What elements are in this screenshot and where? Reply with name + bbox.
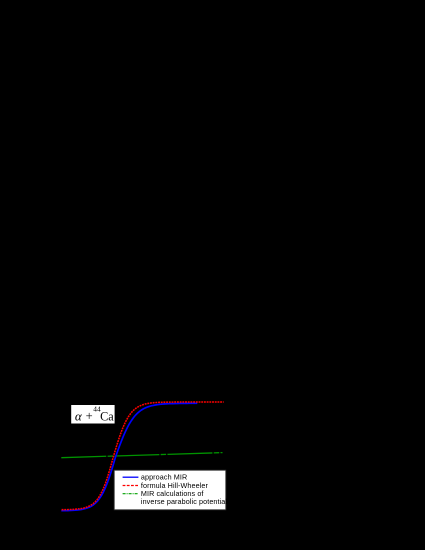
legend sample: green dash-dot line	[123, 493, 139, 495]
green curve: MIR calculations of inverse parabolic potential	[61, 453, 222, 458]
legend sample: blue solid line	[123, 476, 139, 478]
legend box	[114, 470, 226, 510]
blue curve: approach MIR	[61, 403, 197, 510]
red dashed curve: formula Hill-Wheeler	[62, 402, 224, 510]
legend sample: red dashed line	[123, 485, 139, 487]
svg-text:Ca: Ca	[100, 409, 114, 423]
svg-text:α: α	[75, 409, 83, 424]
svg-text:+: +	[86, 409, 93, 423]
reaction label box: alpha + 44Ca	[71, 404, 116, 424]
svg-text:inverse parabolic potential: inverse parabolic potential	[141, 497, 228, 506]
